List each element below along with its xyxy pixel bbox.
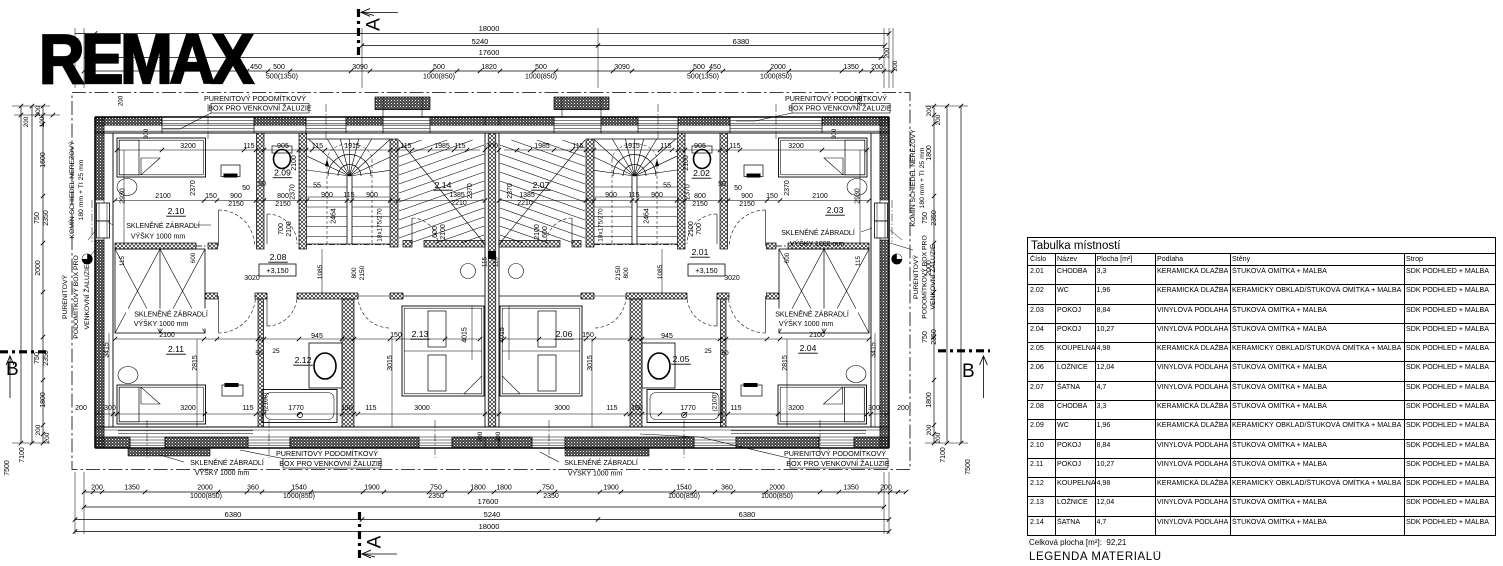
svg-text:BOX PRO VENKOVNÍ ŽALUZIE: BOX PRO VENKOVNÍ ŽALUZIE: [786, 459, 890, 468]
left dimension column: [4, 104, 51, 476]
corridor circle fixtures: [461, 264, 524, 279]
chair room 2.03: [847, 179, 867, 196]
glass railing note bottom left: [160, 455, 264, 477]
north-band south wall left unit: [115, 241, 485, 250]
svg-text:1000(850): 1000(850): [761, 493, 793, 500]
top exterior wall: [95, 117, 889, 133]
north-band south wall right unit: [499, 241, 869, 250]
svg-text:2370: 2370: [290, 184, 297, 200]
staircase left unit: [307, 139, 390, 244]
chair room 2.11: [118, 367, 138, 384]
desk room 2.10: [221, 165, 240, 178]
corridor texts: [244, 275, 740, 282]
svg-text:VÝŠKY 1000 mm: VÝŠKY 1000 mm: [134, 319, 189, 328]
svg-text:150: 150: [341, 405, 353, 412]
top dimension lines: [75, 24, 895, 73]
svg-text:2930: 2930: [855, 188, 862, 204]
svg-text:945: 945: [311, 333, 323, 340]
svg-text:500(1350): 500(1350): [687, 74, 719, 81]
svg-text:KOMÍN SCHIEDEL NEREZOVÝ: KOMÍN SCHIEDEL NEREZOVÝ: [67, 141, 76, 239]
svg-text:PURENITOVÝ: PURENITOVÝ: [60, 275, 69, 320]
svg-text:500(1350): 500(1350): [266, 74, 298, 81]
svg-text:300: 300: [486, 143, 498, 150]
svg-text:50: 50: [734, 185, 742, 192]
svg-text:115: 115: [729, 143, 740, 150]
svg-text:600: 600: [432, 226, 439, 238]
svg-text:800: 800: [623, 267, 630, 278]
purenit note rotated left: [60, 250, 95, 339]
svg-text:180 mm + TI 25 mm: 180 mm + TI 25 mm: [919, 147, 926, 208]
wall between room 2.03 and WC 2.02: [720, 133, 728, 249]
bed room 2.11: [117, 385, 206, 424]
legend title: [1029, 551, 1162, 563]
svg-text:1900: 1900: [364, 485, 380, 492]
svg-text:115: 115: [572, 143, 583, 150]
svg-text:750: 750: [542, 485, 554, 492]
REMAX logo: [39, 19, 251, 99]
floor level boxes: [259, 264, 725, 276]
svg-text:2000: 2000: [197, 485, 213, 492]
glass railing note left upper: [108, 221, 211, 241]
section marker B right: [938, 351, 990, 398]
interior vertical dim lines: [109, 150, 875, 427]
chimney note left: [67, 141, 96, 240]
svg-text:115: 115: [119, 255, 126, 266]
bottom dimension labels: [91, 485, 892, 501]
door to room 2.03: [730, 210, 766, 246]
svg-text:905: 905: [694, 143, 706, 150]
toilet WC 2.09: [272, 146, 292, 169]
svg-text:115: 115: [628, 192, 639, 199]
svg-text:2.07: 2.07: [533, 180, 550, 190]
svg-text:750: 750: [34, 352, 41, 364]
svg-text:3015: 3015: [587, 355, 594, 371]
double bed room 2.13: [402, 306, 484, 396]
left wall chimney: [97, 203, 110, 238]
svg-text:BOX PRO VENKOVNÍ ŽALUZIE: BOX PRO VENKOVNÍ ŽALUZIE: [208, 104, 312, 113]
door to room 2.04: [729, 296, 766, 333]
svg-text:2370: 2370: [190, 180, 197, 196]
svg-text:50: 50: [721, 350, 729, 357]
svg-text:3000: 3000: [554, 405, 570, 412]
bottom dimension lines: [73, 490, 908, 534]
svg-text:2100: 2100: [683, 155, 690, 171]
svg-text:2100: 2100: [812, 193, 828, 200]
svg-text:1770: 1770: [288, 405, 304, 412]
top extension lines: [75, 28, 893, 88]
svg-text:900: 900: [230, 193, 242, 200]
svg-text:PURENITOVÝ PODOMÍTKOVÝ: PURENITOVÝ PODOMÍTKOVÝ: [204, 94, 306, 103]
staircase right unit: [594, 139, 677, 244]
svg-text:1770: 1770: [680, 405, 696, 412]
svg-text:750: 750: [922, 331, 929, 343]
svg-text:3090: 3090: [352, 64, 368, 71]
svg-text:2150: 2150: [615, 265, 622, 280]
svg-text:SKLENĚNÉ ZÁBRADLÍ: SKLENĚNÉ ZÁBRADLÍ: [126, 221, 200, 230]
svg-text:750: 750: [430, 485, 442, 492]
door to room 2.13: [358, 296, 390, 328]
svg-text:200: 200: [926, 105, 933, 116]
svg-text:PODOMÍTKOVÝ BOX PRO: PODOMÍTKOVÝ BOX PRO: [71, 255, 80, 338]
door to room 2.07: [546, 218, 572, 244]
svg-text:1350: 1350: [843, 64, 859, 71]
svg-text:800: 800: [277, 193, 289, 200]
svg-text:25: 25: [272, 348, 280, 355]
washbasin bathroom 2.05: [642, 343, 675, 388]
svg-text:2350: 2350: [543, 493, 559, 500]
svg-text:3200: 3200: [788, 143, 804, 150]
svg-text:900: 900: [366, 192, 378, 199]
svg-text:A: A: [365, 535, 386, 548]
svg-text:2.12: 2.12: [295, 355, 312, 365]
svg-text:18x175/270: 18x175/270: [598, 208, 605, 242]
top wall windows: [162, 117, 822, 133]
svg-text:B: B: [962, 361, 975, 382]
svg-text:1085: 1085: [317, 264, 324, 279]
svg-text:2464: 2464: [331, 208, 338, 224]
svg-text:2100: 2100: [291, 155, 298, 171]
svg-text:500: 500: [433, 64, 445, 71]
svg-text:2100: 2100: [155, 193, 171, 200]
svg-text:1000(850): 1000(850): [668, 493, 700, 500]
svg-text:2100: 2100: [440, 224, 447, 240]
wall between WC 2.09 and left staircase: [299, 133, 307, 249]
svg-text:1800: 1800: [926, 392, 933, 408]
svg-text:5240: 5240: [484, 510, 501, 519]
svg-text:360: 360: [247, 485, 259, 492]
svg-text:500: 500: [273, 64, 285, 71]
svg-text:2.11: 2.11: [168, 344, 184, 354]
svg-text:B: B: [6, 359, 19, 380]
wall between left staircase and room 2.14: [390, 139, 398, 247]
svg-text:115: 115: [454, 143, 465, 150]
note purenit box top right: [736, 94, 892, 121]
svg-text:2000: 2000: [770, 64, 786, 71]
bed room 2.10: [117, 138, 206, 177]
elevation marker right: [892, 254, 902, 264]
svg-text:1800: 1800: [470, 485, 486, 492]
svg-text:150: 150: [631, 405, 643, 412]
svg-text:2.14: 2.14: [435, 180, 452, 190]
bathtub bathroom 2.12: [262, 390, 337, 423]
svg-text:PURENITOVÝ PODOMÍTKOVÝ: PURENITOVÝ PODOMÍTKOVÝ: [784, 449, 886, 458]
sloped ceiling hatch room 2.07: [500, 140, 585, 243]
svg-text:1385: 1385: [519, 192, 535, 199]
section marker A top: [359, 9, 399, 59]
svg-text:BOX PRO VENKOVNÍ ŽALUZIE: BOX PRO VENKOVNÍ ŽALUZIE: [788, 104, 892, 113]
svg-text:17600: 17600: [479, 48, 500, 57]
svg-text:115: 115: [312, 143, 323, 150]
svg-text:150: 150: [390, 332, 402, 339]
svg-text:VÝŠKY 1000 mm: VÝŠKY 1000 mm: [195, 468, 250, 477]
section marker B left: [0, 352, 48, 398]
svg-text:2100: 2100: [809, 332, 825, 339]
svg-text:1800: 1800: [926, 145, 933, 161]
svg-text:180 mm + TI 25 mm: 180 mm + TI 25 mm: [78, 159, 85, 220]
svg-text:115: 115: [343, 192, 354, 199]
note purenit box bottom right: [640, 434, 890, 468]
svg-text:SKLENĚNÉ ZÁBRADLÍ: SKLENĚNÉ ZÁBRADLÍ: [775, 310, 849, 319]
svg-text:115: 115: [365, 405, 376, 412]
svg-text:200: 200: [75, 405, 87, 412]
svg-text:4015: 4015: [462, 327, 469, 343]
door to bathroom 2.05: [687, 296, 717, 326]
door to room 2.10: [219, 210, 255, 246]
svg-text:1800: 1800: [496, 485, 512, 492]
svg-text:VENKOVNÍ ŽALUZIE: VENKOVNÍ ŽALUZIE: [928, 244, 937, 309]
svg-text:PODOMÍTKOVÝ BOX PRO: PODOMÍTKOVÝ BOX PRO: [920, 235, 929, 318]
svg-text:200: 200: [35, 105, 42, 116]
glass railing note bottom center: [540, 452, 638, 478]
svg-text:750: 750: [34, 212, 41, 224]
svg-text:1540: 1540: [676, 485, 692, 492]
svg-text:2150: 2150: [692, 201, 708, 208]
svg-text:4015: 4015: [499, 327, 506, 343]
svg-text:700: 700: [278, 223, 285, 235]
svg-text:1350: 1350: [124, 485, 140, 492]
right dimension column: [922, 104, 972, 475]
window sill lines inside bottom rooms: [118, 431, 866, 434]
south-band north wall left unit: [205, 293, 485, 299]
wall between WC 2.02 and right staircase: [678, 133, 686, 249]
door to WC 2.02: [687, 214, 717, 244]
svg-text:150: 150: [205, 193, 217, 200]
svg-text:VENKOVNÍ ŽALUZIE: VENKOVNÍ ŽALUZIE: [82, 264, 91, 329]
wall between right staircase and room 2.07: [586, 139, 594, 247]
svg-text:1985: 1985: [434, 143, 450, 150]
svg-text:SKLENĚNÉ ZÁBRADLÍ: SKLENĚNÉ ZÁBRADLÍ: [190, 458, 264, 467]
svg-text:1540: 1540: [291, 485, 307, 492]
desk room 2.03: [744, 165, 763, 178]
svg-text:900: 900: [741, 193, 753, 200]
svg-text:905: 905: [277, 143, 289, 150]
svg-text:2350: 2350: [931, 329, 938, 345]
svg-text:2464: 2464: [644, 208, 651, 224]
party wall column: [489, 251, 496, 259]
svg-text:900: 900: [321, 192, 333, 199]
svg-text:500: 500: [693, 64, 705, 71]
elevation marker left: [82, 254, 92, 264]
bed room 2.03: [779, 138, 868, 177]
svg-text:2000: 2000: [35, 260, 42, 276]
svg-text:3200: 3200: [788, 405, 804, 412]
svg-text:2815: 2815: [192, 355, 199, 371]
rotated dimension texts lower: [104, 327, 878, 411]
svg-text:VÝŠKY 1000 mm: VÝŠKY 1000 mm: [779, 319, 834, 328]
svg-text:KOMÍN SCHIEDEL NEREZOVÝ: KOMÍN SCHIEDEL NEREZOVÝ: [908, 129, 917, 227]
svg-text:2150: 2150: [739, 201, 755, 208]
svg-text:1000(850): 1000(850): [423, 74, 455, 81]
svg-text:2150: 2150: [228, 201, 244, 208]
svg-text:2210: 2210: [517, 200, 533, 207]
svg-text:800: 800: [694, 193, 706, 200]
svg-text:200: 200: [871, 64, 883, 71]
svg-text:600: 600: [190, 252, 197, 263]
svg-text:3020: 3020: [244, 275, 260, 282]
svg-text:2150: 2150: [359, 265, 366, 280]
wall between room 2.10 and WC 2.09: [257, 133, 265, 249]
washbasin bathroom 2.12: [309, 343, 342, 388]
svg-text:115: 115: [660, 143, 671, 150]
room table: [1027, 237, 1496, 536]
svg-text:SKLENĚNÉ ZÁBRADLÍ: SKLENĚNÉ ZÁBRADLÍ: [564, 458, 638, 467]
bottom wall windows: [130, 437, 854, 448]
interior dim line y339: [113, 337, 871, 341]
door to bathroom 2.12: [267, 296, 297, 326]
svg-text:50: 50: [258, 181, 266, 188]
svg-text:1000(850): 1000(850): [190, 493, 222, 500]
svg-text:115: 115: [730, 405, 741, 412]
svg-text:PURENITOVÝ: PURENITOVÝ: [911, 255, 920, 300]
svg-text:200: 200: [35, 424, 42, 435]
svg-text:55: 55: [313, 183, 321, 190]
svg-text:3020: 3020: [724, 275, 740, 282]
svg-text:(2100): (2100): [263, 392, 270, 411]
svg-text:17600: 17600: [478, 497, 499, 506]
double bed room 2.06: [500, 306, 582, 396]
chair room 2.04: [846, 366, 866, 383]
svg-text:2100: 2100: [688, 221, 695, 237]
svg-text:2350: 2350: [428, 493, 444, 500]
svg-text:2815: 2815: [782, 355, 789, 371]
door to room 2.11: [219, 296, 256, 333]
staircase walking line right: [612, 144, 659, 244]
svg-text:18000: 18000: [479, 522, 500, 531]
svg-text:55: 55: [663, 183, 671, 190]
svg-text:3415: 3415: [871, 342, 878, 358]
svg-text:25: 25: [704, 348, 712, 355]
door to room 2.14: [412, 218, 438, 244]
svg-text:2.10: 2.10: [168, 206, 185, 216]
svg-text:945: 945: [661, 333, 673, 340]
svg-text:1385: 1385: [449, 192, 465, 199]
svg-text:200: 200: [91, 485, 103, 492]
svg-text:1820: 1820: [481, 64, 497, 71]
svg-text:200: 200: [23, 116, 30, 127]
svg-text:115: 115: [855, 255, 862, 266]
svg-text:+3,150: +3,150: [266, 266, 288, 275]
bottom exterior wall: [95, 427, 889, 448]
svg-text:SKLENĚNÉ ZÁBRADLÍ: SKLENĚNÉ ZÁBRADLÍ: [134, 310, 208, 319]
svg-text:300: 300: [143, 128, 150, 139]
svg-text:2.02: 2.02: [693, 168, 710, 178]
svg-text:1800: 1800: [40, 392, 47, 408]
svg-text:115: 115: [493, 256, 500, 267]
svg-text:900: 900: [605, 192, 617, 199]
svg-text:2150: 2150: [275, 201, 291, 208]
svg-text:(2100): (2100): [712, 392, 719, 411]
svg-text:1915: 1915: [624, 143, 640, 150]
svg-text:360: 360: [721, 485, 733, 492]
svg-text:1350: 1350: [843, 485, 859, 492]
svg-text:750: 750: [922, 212, 929, 224]
right exterior wall: [871, 117, 889, 448]
dormer boxes above top wall: [375, 97, 609, 117]
svg-text:200: 200: [935, 432, 942, 443]
note purenit box top left: [163, 94, 312, 129]
svg-text:2100: 2100: [534, 224, 541, 240]
interior dim line y414: [95, 412, 889, 416]
svg-text:5240: 5240: [472, 37, 489, 46]
svg-text:2370: 2370: [784, 180, 791, 196]
window axis dash-dot lines: [92, 104, 892, 458]
svg-text:1000(850): 1000(850): [525, 74, 557, 81]
sloped ceiling hatch room 2.14: [399, 140, 484, 243]
svg-text:2370: 2370: [507, 183, 514, 199]
room number labels: [166, 168, 845, 366]
svg-text:1900: 1900: [603, 485, 619, 492]
svg-text:3200: 3200: [180, 143, 196, 150]
svg-text:1600: 1600: [40, 152, 47, 168]
note purenit box bottom left: [240, 449, 383, 468]
top dimension labels: [250, 47, 899, 80]
svg-text:2000: 2000: [769, 485, 785, 492]
svg-text:PURENITOVÝ PODOMÍTKOVÝ: PURENITOVÝ PODOMÍTKOVÝ: [276, 449, 378, 458]
wall between room 2.11 and bathroom 2.12: [258, 299, 264, 427]
desk room 2.11: [222, 383, 243, 396]
bed room 2.04: [778, 385, 867, 424]
svg-text:6380: 6380: [733, 37, 750, 46]
svg-text:+3,150: +3,150: [695, 266, 717, 275]
chimney note right: [890, 129, 926, 240]
svg-text:A: A: [364, 18, 385, 31]
svg-text:7500: 7500: [965, 459, 972, 475]
svg-text:VÝŠKY 1000 mm: VÝŠKY 1000 mm: [568, 469, 623, 478]
svg-text:450: 450: [250, 64, 262, 71]
central party wall: [485, 133, 499, 427]
svg-text:200: 200: [495, 431, 502, 442]
void opening with cross bracing left: [115, 249, 205, 333]
svg-text:2350: 2350: [931, 210, 938, 226]
dimension texts upper band: [180, 143, 804, 150]
svg-text:300: 300: [868, 405, 880, 412]
wall between bathroom 2.05 and room 2.06: [630, 299, 642, 427]
bottom extension lines: [75, 472, 889, 534]
svg-text:3000: 3000: [414, 405, 430, 412]
left margin mini dim: [14, 113, 60, 127]
purenit note rotated right: [890, 235, 937, 318]
glass railing note left lower: [126, 309, 218, 329]
glass railing note right lower: [766, 309, 858, 329]
dimension texts y199 band: [155, 181, 828, 208]
svg-text:800: 800: [351, 267, 358, 278]
svg-text:VÝŠKY 1000 mm: VÝŠKY 1000 mm: [131, 232, 186, 241]
svg-text:900: 900: [651, 192, 663, 199]
svg-text:2100: 2100: [159, 332, 175, 339]
svg-text:115: 115: [606, 405, 617, 412]
svg-text:600: 600: [542, 226, 549, 238]
svg-text:450: 450: [709, 64, 721, 71]
chair room 2.10: [117, 179, 137, 196]
svg-text:PURENITOVÝ PODOMÍTKOVÝ: PURENITOVÝ PODOMÍTKOVÝ: [785, 94, 887, 103]
svg-text:7500: 7500: [4, 460, 11, 476]
svg-text:2350: 2350: [43, 210, 50, 226]
svg-text:2370: 2370: [467, 183, 474, 199]
svg-text:2.01: 2.01: [692, 247, 709, 257]
svg-text:2100: 2100: [286, 221, 293, 237]
svg-text:18000: 18000: [479, 24, 500, 33]
svg-text:2.04: 2.04: [800, 343, 817, 353]
svg-text:115: 115: [400, 143, 411, 150]
svg-text:200: 200: [897, 405, 909, 412]
svg-text:300: 300: [104, 405, 116, 412]
svg-text:115: 115: [243, 143, 254, 150]
rotated dimension texts upper: [118, 95, 864, 442]
svg-text:200: 200: [926, 424, 933, 435]
interior dim line upper rooms: [115, 148, 869, 152]
svg-text:3015: 3015: [387, 355, 394, 371]
wall between bathroom 2.12 and room 2.13: [342, 299, 354, 427]
